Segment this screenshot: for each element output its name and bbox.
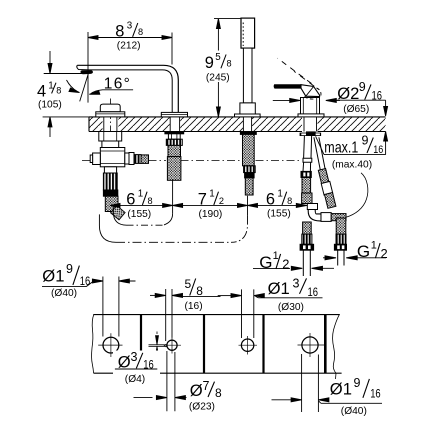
through-deck shaft lines [104, 117, 317, 132]
svg-text:9: 9 [66, 262, 73, 276]
label 5/8 (16) [185, 277, 204, 312]
G1/2 right arrows [323, 256, 386, 260]
mixer lever [274, 85, 319, 97]
svg-text:(155): (155) [127, 209, 151, 220]
label Ø1 9/16 (Ø40) bottom-right [327, 376, 381, 417]
svg-text:8: 8 [56, 86, 61, 96]
right G1/2 hose [334, 218, 346, 266]
dimension Ø65 arrows [273, 98, 340, 102]
left G1/2 hose [300, 222, 314, 276]
bottom view panel [92, 315, 342, 379]
hand shower escutcheon [235, 114, 261, 117]
svg-text:(Ø4): (Ø4) [125, 374, 145, 385]
valve V1 lower stack [103, 167, 118, 212]
svg-text:9: 9 [362, 134, 369, 148]
mixer lever swing dashed [278, 58, 322, 99]
spout mounting stud under deck [165, 132, 184, 181]
dimension 4 1/8 lines [43, 51, 89, 137]
mixer left supply strand [300, 131, 322, 203]
svg-text:1: 1 [138, 188, 143, 199]
label Ø2 9/16 (Ø65) [337, 80, 382, 115]
dimension 8 3/8 lines [88, 32, 172, 103]
label G 1/2 left [259, 250, 289, 272]
svg-text:9: 9 [359, 80, 366, 94]
mixer right diagonal strand [314, 137, 336, 208]
svg-text:8: 8 [148, 196, 153, 206]
spout body tube [77, 65, 178, 112]
svg-text:5: 5 [215, 52, 221, 63]
hand shower stud under deck [240, 132, 256, 196]
hole H4 Ø40 [298, 333, 326, 357]
label 6 1/8 (155) right [266, 188, 292, 219]
svg-text:16°: 16° [104, 75, 131, 92]
centerline valve vertical [110, 99, 112, 141]
svg-text:16: 16 [372, 89, 383, 103]
dim Ø40 bottom-right lines [272, 354, 383, 412]
hand shower handle shaft [243, 48, 252, 103]
svg-text:Ø1: Ø1 [42, 266, 64, 285]
label 9 5/8 (245) [203, 51, 233, 84]
svg-text:16: 16 [308, 285, 319, 299]
label Ø7/8 (Ø23) [187, 379, 223, 413]
hand shower holder [240, 103, 255, 114]
svg-text:2: 2 [282, 257, 289, 272]
angle 16 degree marks [67, 74, 134, 102]
dim Ø40 top-left lines [42, 277, 136, 337]
svg-text:8: 8 [227, 59, 232, 69]
dim 5/8 lines [150, 289, 221, 341]
svg-text:3: 3 [131, 350, 138, 364]
valve V1 top knob [100, 104, 120, 112]
svg-text:G: G [259, 253, 272, 272]
svg-text:16: 16 [80, 274, 91, 288]
svg-text:8: 8 [115, 22, 124, 40]
valve V1 under-deck body [99, 132, 125, 167]
svg-text:(245): (245) [206, 72, 230, 83]
svg-text:max.1: max.1 [324, 139, 358, 156]
svg-text:2: 2 [381, 246, 388, 261]
dim Ø30 lines [218, 289, 323, 338]
svg-text:(Ø23): (Ø23) [189, 401, 215, 412]
label 7 1/2 (190) [198, 188, 224, 220]
outer hose route curve [99, 214, 247, 242]
label 4 1/8 (105) [37, 81, 62, 111]
svg-text:1: 1 [209, 188, 214, 199]
svg-text:(max.40): (max.40) [332, 159, 372, 170]
svg-text:1: 1 [273, 250, 279, 262]
dimension max.40 right side [316, 100, 388, 154]
mixer elbow outlet [307, 204, 346, 222]
svg-text:8: 8 [196, 284, 203, 298]
label G 1/2 right [357, 240, 388, 262]
svg-text:Ø: Ø [190, 381, 203, 400]
mixer body [301, 98, 320, 115]
hole H1 Ø40 [98, 333, 122, 357]
centerline horizontal G1/4 connection [82, 159, 302, 161]
label max.1 9/16 (max.40) [324, 134, 383, 171]
svg-text:7: 7 [198, 190, 207, 208]
svg-text:5: 5 [185, 277, 192, 291]
svg-text:Ø1: Ø1 [268, 279, 290, 298]
label Ø3/16 (Ø4) [113, 350, 160, 385]
svg-text:6: 6 [266, 190, 275, 208]
svg-text:1: 1 [277, 188, 282, 199]
svg-text:8: 8 [287, 196, 292, 206]
valve V1 right connector [125, 153, 149, 165]
label Ø1 9/16 (Ø40) top-left [42, 262, 90, 299]
svg-text:9: 9 [205, 54, 214, 72]
svg-text:4: 4 [37, 83, 46, 101]
svg-text:(Ø40): (Ø40) [341, 406, 367, 417]
svg-text:7: 7 [203, 379, 210, 393]
label Ø1 3/16 (Ø30) [268, 277, 319, 314]
svg-text:2: 2 [219, 196, 224, 206]
svg-text:Ø2: Ø2 [337, 84, 359, 103]
svg-text:1: 1 [371, 240, 377, 252]
svg-text:(Ø30): (Ø30) [278, 302, 304, 313]
svg-text:Ø1: Ø1 [330, 379, 352, 398]
svg-text:G: G [357, 242, 370, 261]
valve V1 hose end fitting [111, 206, 126, 220]
dim Ø23 lines [134, 351, 222, 411]
svg-text:(16): (16) [185, 301, 203, 312]
valve V1 escutcheon [96, 112, 125, 117]
G1/2 left arrows [253, 266, 334, 270]
svg-text:(212): (212) [117, 41, 141, 52]
deck cross-section hatched [89, 117, 386, 132]
hole H5 tiny Ø4 [149, 332, 167, 369]
dimension 9 5/8 line [214, 19, 241, 117]
label 8 3/8 (212) [115, 21, 143, 52]
spout escutcheon [161, 112, 187, 117]
svg-text:16: 16 [370, 386, 381, 400]
svg-text:(Ø40): (Ø40) [51, 288, 77, 299]
hole H3 Ø30 [239, 336, 258, 355]
svg-text:(190): (190) [199, 209, 223, 220]
hand shower head [241, 18, 255, 48]
label 6 1/8 (155) left [126, 188, 152, 220]
deck holes white gaps [103, 116, 318, 133]
hose swing arc [346, 173, 368, 217]
svg-text:16: 16 [373, 144, 383, 156]
inner hose route curve [113, 205, 172, 226]
mixer escutcheon [298, 114, 324, 117]
svg-text:8: 8 [138, 27, 143, 37]
svg-text:9: 9 [354, 376, 361, 390]
svg-text:3: 3 [127, 21, 133, 32]
svg-text:8: 8 [215, 386, 222, 400]
valve V1 left port [90, 153, 100, 165]
svg-text:(155): (155) [267, 209, 291, 220]
svg-text:3: 3 [293, 277, 300, 291]
hole H2 Ø23 [164, 338, 182, 354]
chain dimension line 155/190/155 [110, 179, 307, 216]
svg-text:6: 6 [126, 190, 135, 208]
spout aerator outlet [80, 70, 92, 74]
svg-text:(Ø65): (Ø65) [343, 104, 369, 115]
svg-text:(105): (105) [38, 100, 62, 111]
